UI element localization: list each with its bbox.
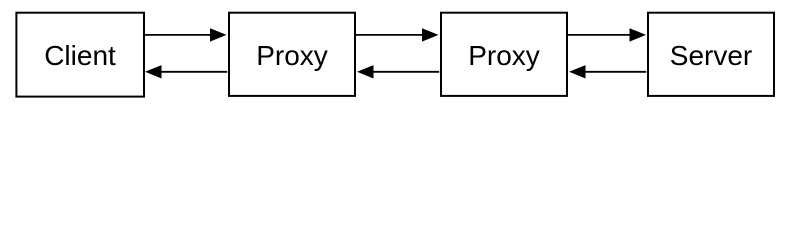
- wire arrow Proxy2 to Proxy1 (left): [373, 71, 439, 73]
- box Server: [648, 13, 774, 96]
- box Client: [16, 13, 144, 97]
- box Proxy 2: [441, 13, 567, 96]
- wire arrow Proxy1 to Client (left): [161, 71, 227, 73]
- arrowhead Proxy2 to Proxy1: [357, 65, 374, 78]
- arrowhead Proxy1 to Proxy2: [422, 28, 439, 41]
- wire arrow Client to Proxy1 (right): [144, 34, 211, 36]
- box Proxy 1: [229, 13, 355, 96]
- arrowhead Client to Proxy1: [210, 28, 227, 41]
- wire arrow Proxy2 to Server (right): [567, 34, 630, 36]
- wire arrow Proxy1 to Proxy2 (right): [355, 34, 423, 36]
- svg-text:Proxy: Proxy: [256, 40, 328, 71]
- arrowhead Server to Proxy2: [569, 65, 586, 78]
- arrowhead Proxy1 to Client: [145, 65, 162, 78]
- svg-text:Server: Server: [670, 40, 752, 71]
- svg-text:Proxy: Proxy: [468, 40, 540, 71]
- svg-text:Client: Client: [44, 40, 116, 71]
- wire arrow Server to Proxy2 (left): [585, 71, 646, 73]
- arrowhead Proxy2 to Server: [630, 28, 647, 41]
